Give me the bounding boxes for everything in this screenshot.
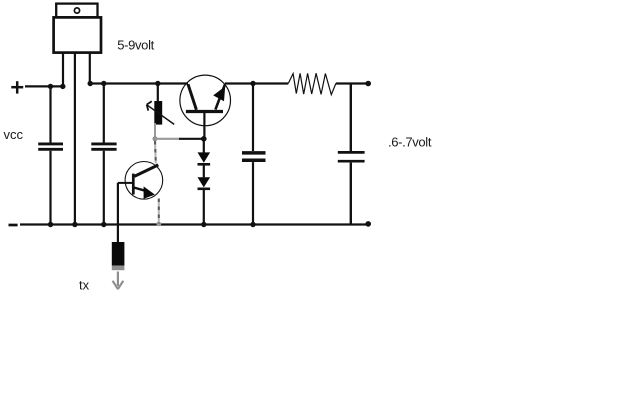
wire: Q2 base down to block xyxy=(117,183,119,243)
svg-text:5-9volt: 5-9volt xyxy=(117,38,154,53)
regulator U1 pin 1 lead xyxy=(62,53,64,87)
wire: Q1 base to node xyxy=(203,112,205,140)
junction dot: R1 top node xyxy=(155,81,160,86)
junction dot: C2 bottom xyxy=(101,222,106,227)
junction dot: U1 pin2 bottom xyxy=(72,222,77,227)
junction dot: U1 pin3 node xyxy=(88,81,93,86)
regulator U1 pin 3 lead xyxy=(89,53,91,84)
wire (gray): R1 bottom to node A xyxy=(154,123,156,139)
wire: node A to Q1 base node (right half black) xyxy=(179,138,204,140)
diode D2 xyxy=(198,177,211,189)
junction dot: diode string bottom xyxy=(201,222,206,227)
node A junction dot (gray) xyxy=(153,136,158,141)
gray dashed wire: Q2 emitter to ground rail xyxy=(158,199,160,224)
minus terminal xyxy=(9,224,18,227)
diode D1 xyxy=(198,152,211,164)
junction dot: C3 top node xyxy=(250,81,255,86)
capacitor C1 xyxy=(38,86,63,224)
wire: D2 to ground rail xyxy=(203,190,205,225)
terminal dot: output top right xyxy=(365,81,371,87)
transistor Q2 xyxy=(125,162,163,200)
junction dot: U1 pin1 node xyxy=(60,84,65,89)
wire: + input rail xyxy=(25,85,63,87)
capacitor C3 xyxy=(242,84,266,225)
wire: node A to Q1 base node (left half gray) xyxy=(155,138,179,140)
svg-text:tx: tx xyxy=(79,278,90,293)
junction dot: C1 bottom xyxy=(48,222,53,227)
wire: Q1 base node to D1 xyxy=(203,139,205,153)
trimmer resistor R1 xyxy=(147,84,175,125)
wire: R2 to output terminal xyxy=(336,82,369,84)
terminal dot: bottom right xyxy=(365,221,371,227)
ground rail wire xyxy=(20,223,368,225)
junction dot: C1 top node xyxy=(48,84,53,89)
junction dot: C3 bottom xyxy=(250,222,255,227)
gray arrow: tx output xyxy=(113,272,124,290)
capacitor C2 xyxy=(91,84,116,225)
regulator U1 pin 2 lead / wire to ground rail xyxy=(74,53,76,225)
capacitor C4 xyxy=(338,84,365,225)
svg-text:vcc: vcc xyxy=(4,127,24,142)
wire: output rail segment U1 to Q1 xyxy=(90,82,188,84)
svg-text:.6-.7volt: .6-.7volt xyxy=(388,134,432,149)
gray dashed wire: node A to Q2 collector xyxy=(154,141,157,164)
wire: output rail segment Q1 to R2 xyxy=(225,82,288,84)
junction dot: C2 top node xyxy=(101,81,106,86)
wire: D1 to D2 xyxy=(203,166,205,178)
junction dot: Q1 base node xyxy=(201,136,207,142)
plus terminal xyxy=(11,81,23,93)
resistor R2 xyxy=(288,73,336,94)
junction dot (gray): Q2 emitter node xyxy=(156,222,161,227)
wire: Q2 base horizontal xyxy=(118,182,133,184)
voltage regulator U1 (TO-220 package) xyxy=(54,4,101,53)
inductor / antenna block L1 xyxy=(112,242,125,270)
transistor Q1 xyxy=(180,75,231,126)
